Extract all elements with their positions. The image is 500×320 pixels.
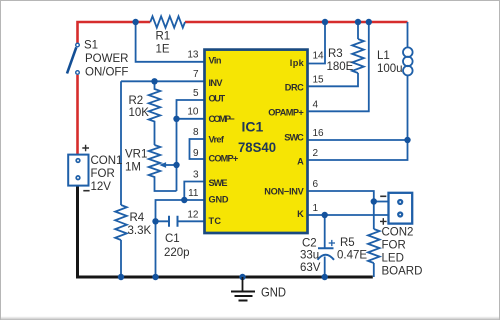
resistor R5: [368, 229, 380, 263]
svg-text:9: 9: [193, 148, 199, 159]
svg-text:14: 14: [313, 51, 325, 62]
svg-text:1M: 1M: [125, 162, 141, 174]
node INV/R2: [151, 78, 157, 84]
svg-text:FOR: FOR: [382, 240, 406, 252]
svg-text:S1: S1: [84, 40, 98, 52]
node COMP-/OUT: [173, 116, 179, 122]
svg-text:12: 12: [187, 209, 199, 220]
svg-text:DRC: DRC: [285, 83, 304, 93]
wire OPAMP+ pin 4: [307, 22, 369, 111]
svg-text:6: 6: [313, 179, 319, 190]
wire R4 branch vertical: [120, 81, 122, 277]
svg-text:R5: R5: [340, 237, 355, 249]
svg-text:FOR: FOR: [91, 168, 115, 180]
inductor L1 vertical leads: [407, 22, 409, 140]
svg-text:NON−INV: NON−INV: [264, 187, 304, 197]
svg-text:COMP−: COMP−: [209, 114, 235, 124]
svg-text:10K: 10K: [129, 107, 150, 119]
IC U1 78S40 body: [205, 50, 308, 233]
wire INV line to pin 7: [121, 80, 205, 82]
wire Ipk pin 14: [307, 22, 325, 64]
svg-text:CON1: CON1: [91, 155, 123, 167]
svg-text:C1: C1: [165, 233, 180, 245]
svg-text:4: 4: [313, 99, 319, 110]
connector CON1: [68, 145, 89, 191]
wire SWC pin 16: [307, 139, 408, 141]
resistor R3: [352, 39, 364, 73]
switch S1: [67, 43, 79, 74]
node K/C2: [322, 212, 328, 218]
svg-text:Ipk: Ipk: [290, 58, 305, 68]
svg-text:12V: 12V: [91, 181, 112, 193]
wire A pin 2: [307, 140, 408, 160]
svg-text:7: 7: [193, 69, 199, 80]
svg-text:ON/OFF: ON/OFF: [85, 67, 128, 79]
node rail/R3: [355, 19, 361, 25]
svg-text:R4: R4: [130, 212, 145, 224]
node R4/ground rail: [118, 274, 124, 280]
svg-text:63V: 63V: [300, 262, 321, 274]
resistor R1: [150, 16, 185, 27]
svg-text:0.47E: 0.47E: [337, 250, 367, 262]
svg-text:K: K: [297, 209, 304, 219]
svg-text:A: A: [297, 157, 304, 167]
svg-text:POWER: POWER: [85, 53, 128, 65]
svg-text:1: 1: [313, 203, 319, 214]
wire GND pin 11 to C1 node: [156, 200, 206, 277]
potentiometer VR1 wiper arrowhead: [159, 162, 166, 168]
svg-text:COMP+: COMP+: [209, 154, 239, 164]
svg-text:OPAMP+: OPAMP+: [268, 107, 304, 117]
svg-text:1E: 1E: [156, 44, 170, 56]
svg-text:GND: GND: [209, 194, 229, 204]
svg-text:Vref: Vref: [209, 135, 225, 145]
resistor R2: [149, 81, 161, 145]
ground: [231, 277, 255, 301]
wire C2 branch: [324, 215, 326, 277]
inductor L1 coil: [403, 47, 413, 57]
node SWE/GND: [181, 197, 187, 203]
wire K pin 1 to CON2 plus: [307, 214, 389, 216]
svg-text:180E: 180E: [327, 61, 354, 73]
svg-text:SWE: SWE: [209, 178, 228, 188]
svg-text:3.3K: 3.3K: [128, 225, 152, 237]
node C1/ground rail: [152, 274, 158, 280]
svg-text:8: 8: [193, 127, 199, 138]
svg-text:INV: INV: [209, 78, 224, 88]
pin numbers: [187, 50, 324, 221]
wire Vref to COMP+ (pins 8-9): [190, 139, 206, 159]
svg-text:16: 16: [313, 128, 325, 139]
wire SWE to GND (pins 3-11): [184, 182, 205, 201]
svg-text:R2: R2: [129, 95, 144, 107]
node SWC/L1: [404, 137, 410, 143]
svg-text:R3: R3: [328, 48, 343, 60]
svg-text:13: 13: [187, 50, 199, 61]
svg-text:C2: C2: [302, 238, 317, 250]
wire Vin tap (node to pin 13): [136, 22, 205, 62]
svg-text:BOARD: BOARD: [382, 266, 423, 278]
node VR1 wiper: [173, 162, 179, 168]
resistor R5 branch: [373, 202, 375, 278]
svg-text:TC: TC: [209, 216, 222, 226]
node rail/Ipk: [322, 19, 328, 25]
svg-text:L1: L1: [377, 50, 390, 62]
resistor R4: [115, 205, 127, 240]
node NON-INV/R5/CON2: [371, 198, 377, 204]
node rail/OPAMP+: [366, 19, 372, 25]
node TC/C1: [152, 218, 158, 224]
svg-text:11: 11: [188, 188, 199, 199]
svg-text:CON2: CON2: [382, 227, 414, 239]
connector CON2: [380, 193, 412, 225]
svg-text:Vin: Vin: [209, 55, 222, 65]
svg-text:10: 10: [187, 107, 199, 118]
svg-text:SWC: SWC: [284, 133, 304, 143]
wire node to CON2 minus: [374, 201, 389, 203]
wire NON-INV pin 6: [307, 191, 374, 202]
svg-text:15: 15: [313, 74, 325, 85]
svg-text:100u: 100u: [377, 63, 403, 75]
svg-text:VR1: VR1: [125, 149, 147, 161]
node rail/Vin: [132, 19, 138, 25]
potentiometer VR1: [149, 145, 177, 191]
svg-text:3: 3: [193, 170, 199, 181]
svg-text:R1: R1: [156, 31, 171, 43]
wire red supply: left vertical + top rail: [78, 22, 408, 154]
wire black ground bottom rail: [78, 186, 373, 277]
svg-text:5: 5: [193, 88, 199, 99]
capacitor C1: [169, 216, 178, 227]
svg-text:33u: 33u: [300, 250, 319, 262]
capacitor C2 plates: [318, 248, 335, 260]
wire COMP- stub pin 10: [177, 118, 206, 120]
IC1 pin name labels: [209, 55, 305, 225]
node C2/ground rail: [322, 274, 328, 280]
svg-text:78S40: 78S40: [238, 139, 276, 155]
svg-text:OUT: OUT: [209, 94, 226, 104]
svg-text:2: 2: [313, 148, 319, 159]
wire VR1 wiper arm: [163, 164, 177, 166]
svg-text:LED: LED: [382, 253, 404, 265]
wire TC pin 12 / C1: [156, 220, 206, 222]
wire OUT/COMP-/wiper vertical: [177, 100, 206, 191]
wire DRC pin 15 / R3 branch: [307, 22, 358, 86]
svg-text:IC1: IC1: [242, 118, 264, 134]
svg-text:220p: 220p: [164, 247, 190, 259]
node GND symbol: [239, 274, 245, 280]
svg-text:GND: GND: [261, 284, 286, 299]
